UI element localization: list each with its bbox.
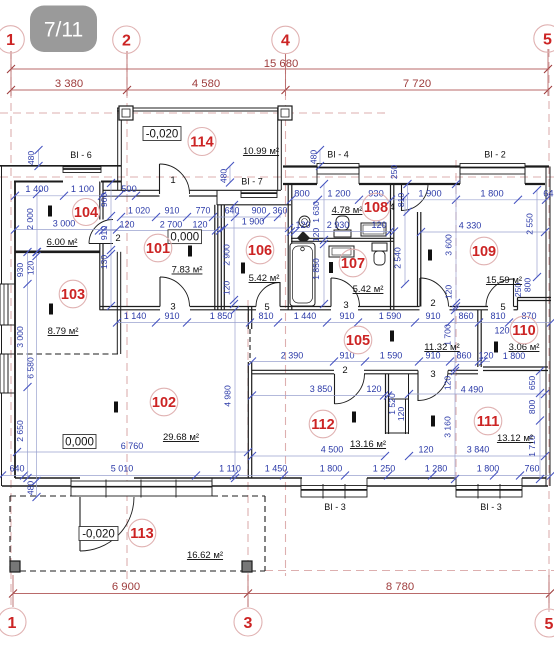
- svg-text:3 000: 3 000: [15, 326, 25, 348]
- wall 109 left vertical below door: [417, 212, 419, 307]
- wall B porch/entry (y=190): [103, 189, 160, 191]
- svg-text:4 980: 4 980: [223, 385, 233, 407]
- blue dim 1900 room 106 top: [224, 227, 289, 229]
- svg-text:250: 250: [389, 165, 399, 180]
- door 2 109 leaf: [419, 278, 421, 307]
- porch 113 column left: [10, 561, 20, 572]
- svg-text:5: 5: [543, 31, 552, 48]
- svg-text:3 850: 3 850: [310, 384, 333, 394]
- inner ledge line y=204.8: [217, 204, 291, 206]
- red dashed axis grid line 4 (vertical x=289): [285, 53, 287, 576]
- svg-text:120: 120: [418, 445, 433, 455]
- red dashed axis line (vertical x=456): [455, 160, 457, 490]
- door 2 101->104 arc: [89, 220, 113, 244]
- svg-text:7 720: 7 720: [403, 78, 431, 90]
- section mark room 110: [494, 342, 498, 353]
- svg-text:1 020: 1 020: [128, 206, 150, 216]
- svg-text:ВІ - 3: ВІ - 3: [480, 502, 502, 512]
- svg-text:2 000: 2 000: [25, 208, 35, 230]
- svg-text:113: 113: [130, 526, 153, 542]
- svg-text:1: 1: [8, 615, 17, 632]
- section mark room 107: [329, 262, 333, 273]
- svg-text:106: 106: [248, 243, 272, 259]
- porch 114 column left: [119, 106, 133, 120]
- svg-text:2 550: 2 550: [525, 213, 535, 235]
- porch 113 dashed outline: [10, 495, 80, 497]
- svg-text:5 010: 5 010: [111, 464, 134, 474]
- svg-text:ВІ - 6: ВІ - 6: [70, 150, 92, 160]
- red grid extension stems top: [10, 51, 12, 96]
- red dashed axis grid line 2 (vertical x=127): [126, 51, 128, 580]
- svg-text:3: 3: [244, 615, 253, 632]
- svg-text:1 440: 1 440: [294, 311, 317, 321]
- wall 102/105/112 vertical x=250: [247, 307, 249, 330]
- door 2 101->104 leaf: [89, 243, 113, 245]
- svg-text:1: 1: [170, 175, 175, 186]
- svg-text:120: 120: [396, 407, 406, 422]
- svg-text:2: 2: [122, 32, 131, 49]
- svg-text:1 250: 1 250: [373, 464, 396, 474]
- stub wall x=217 y190-205: [216, 190, 218, 205]
- window jambs top wall: [316, 167, 318, 185]
- living room window band (bottom): [71, 481, 212, 496]
- svg-text:4 330: 4 330: [459, 221, 482, 231]
- svg-text:-0,020: -0,020: [146, 128, 179, 140]
- svg-text:910: 910: [339, 311, 354, 321]
- svg-text:800: 800: [294, 189, 310, 199]
- blue vdim 2540: [404, 197, 406, 284]
- porch 114 column right: [278, 106, 292, 120]
- svg-text:4 500: 4 500: [321, 445, 344, 455]
- svg-text:120: 120: [444, 285, 454, 300]
- section mark room 101: [188, 246, 192, 257]
- wall 110/111 divider: [483, 366, 548, 368]
- room tag 112: [309, 410, 337, 438]
- red dimension line row 3380/4580/7720: [11, 89, 548, 91]
- wall corridor-arm/110 vertical: [477, 310, 479, 367]
- svg-text:2 930: 2 930: [327, 220, 350, 230]
- svg-text:1 900: 1 900: [418, 189, 441, 199]
- wall 106/107 (bathroom block left) vertical: [287, 184, 289, 310]
- svg-text:1 630: 1 630: [311, 201, 321, 223]
- blue vdim 480 BI-4: [319, 150, 321, 166]
- svg-text:360: 360: [273, 206, 288, 216]
- svg-text:110: 110: [512, 323, 535, 339]
- red overall dimension line 15680: [11, 68, 548, 70]
- blue dim row 800/1200/930/1900/1800: [291, 199, 548, 201]
- toilet room 107: [372, 243, 387, 251]
- svg-text:103: 103: [61, 287, 85, 303]
- room tag 114: [188, 128, 216, 156]
- svg-text:1 850: 1 850: [311, 258, 321, 280]
- blue vdim 2900/120 room 106: [233, 205, 235, 307]
- svg-text:5.42 м²: 5.42 м²: [353, 284, 384, 295]
- window BI-3 right (below room 111): [456, 486, 522, 498]
- room tag 108: [362, 193, 390, 221]
- svg-text:111: 111: [477, 414, 500, 430]
- red dashed axis grid line 5 (vertical x=549): [548, 49, 550, 612]
- left wall window lower: [0, 354, 8, 393]
- door 1 arc: [160, 164, 190, 194]
- svg-text:101: 101: [146, 241, 170, 257]
- door 4 108->109 leaf: [401, 184, 403, 211]
- blue dim row 120/2930/120 (bathrooms): [291, 231, 394, 233]
- outer top wall left section, outer face: [0, 165, 121, 167]
- svg-text:5: 5: [264, 302, 269, 313]
- blue bottom dim row y=475: [2, 475, 551, 477]
- door 3 107 leaf: [330, 278, 332, 307]
- porch 114 right wall: [277, 108, 279, 190]
- red dashed horizontal axis y=115: [0, 112, 390, 114]
- door 3 105->111 arc: [418, 371, 448, 401]
- blue dim row 120/2700/120 (room 101): [99, 230, 220, 232]
- svg-text:5.42 м²: 5.42 м²: [249, 273, 280, 284]
- room tag 110: [510, 316, 538, 344]
- grid bubble 1 top: [0, 26, 24, 53]
- red dashed horizontal axis y=570: [265, 570, 554, 572]
- svg-text:130: 130: [99, 255, 109, 270]
- washbasin room 107: [329, 246, 354, 257]
- blue vdim 2550 room 109: [536, 190, 538, 277]
- svg-text:ВІ - 4: ВІ - 4: [327, 150, 349, 160]
- 109 bottom wall right raised step: [518, 297, 552, 299]
- room tag 101: [144, 234, 172, 262]
- svg-text:6 580: 6 580: [26, 357, 36, 379]
- svg-text:6 900: 6 900: [112, 581, 140, 593]
- grid bubble 2 top: [113, 26, 140, 53]
- svg-text:1 140: 1 140: [124, 311, 147, 321]
- svg-text:ВІ - 2: ВІ - 2: [484, 150, 506, 160]
- blue vdim 810 door 109: [407, 184, 409, 212]
- outer top wall right section, outer face: [283, 165, 549, 167]
- grid bubble 1 bottom: [0, 608, 26, 636]
- washbasin room 108: [299, 216, 310, 227]
- svg-text:8.79 м²: 8.79 м²: [48, 326, 79, 337]
- open boundary 103/102 dashed: [17, 353, 119, 355]
- svg-text:770: 770: [196, 206, 211, 216]
- svg-text:930: 930: [15, 263, 25, 278]
- svg-text:3: 3: [430, 369, 435, 380]
- wall 104/103 divider: [15, 251, 100, 254]
- svg-text:107: 107: [341, 256, 365, 272]
- svg-text:1 800: 1 800: [477, 464, 500, 474]
- svg-text:120: 120: [371, 220, 386, 230]
- room tag 106: [246, 236, 274, 264]
- svg-text:1 850: 1 850: [210, 311, 233, 321]
- bottom outer wall inner face: [15, 477, 80, 479]
- svg-text:2 650: 2 650: [15, 420, 25, 442]
- svg-text:8 780: 8 780: [386, 581, 414, 593]
- svg-text:860: 860: [458, 311, 473, 321]
- blue vdim 960/910/130 x=110: [110, 183, 112, 307]
- svg-text:15 680: 15 680: [264, 58, 299, 70]
- wall 104/101 vertical: [99, 182, 101, 220]
- outer top wall left section, inner face: [14, 181, 63, 183]
- svg-text:910: 910: [165, 206, 180, 216]
- svg-text:4: 4: [281, 33, 290, 50]
- svg-text:15.59 м²: 15.59 м²: [486, 275, 522, 286]
- room tag 111: [474, 407, 502, 435]
- blue dim row 1020/910/770/640/900/360: [121, 216, 281, 218]
- svg-text:6.00 м²: 6.00 м²: [47, 237, 78, 248]
- svg-text:650: 650: [527, 376, 537, 391]
- section mark room 109: [428, 250, 432, 261]
- red bottom dimension line 6900 / 8780: [13, 593, 550, 595]
- svg-text:120: 120: [478, 351, 493, 361]
- svg-text:3 840: 3 840: [467, 445, 490, 455]
- svg-text:1: 1: [6, 32, 15, 49]
- cabinet room 108: [361, 223, 386, 236]
- svg-text:4 580: 4 580: [192, 78, 220, 90]
- blue dim middle row y=322: [117, 322, 551, 324]
- window BI-7: [241, 191, 277, 198]
- left outer wall inner face: [14, 182, 16, 479]
- door 3 101->102 arc: [160, 277, 190, 307]
- elevation box 0,000 room 101: [168, 230, 202, 244]
- blue vdim 2000 room 104: [36, 194, 38, 252]
- wall 103 right vertical: [116, 252, 118, 354]
- svg-text:0,000: 0,000: [65, 436, 94, 448]
- svg-text:640: 640: [9, 464, 24, 474]
- svg-text:2: 2: [342, 365, 347, 376]
- svg-text:800: 800: [523, 278, 533, 293]
- svg-text:114: 114: [190, 135, 213, 151]
- grid bubble 3 bottom: [234, 608, 262, 636]
- svg-text:105: 105: [346, 333, 370, 349]
- room bottom wall band y=306.5/309.8: [100, 306, 161, 308]
- svg-text:112: 112: [311, 417, 334, 433]
- svg-text:120: 120: [366, 384, 381, 394]
- svg-text:7.83 м²: 7.83 м²: [172, 265, 203, 276]
- door 3 101->102 leaf: [159, 277, 161, 307]
- elevation box -0,020 porch 113: [79, 527, 118, 541]
- svg-text:900: 900: [252, 206, 267, 216]
- blue vdim 1700/120/3160 corridor arm: [454, 310, 456, 479]
- door 1 porch->101 leaf: [159, 164, 161, 194]
- door 3 105->111 leaf: [417, 371, 419, 402]
- shaft walls between 112 and 111: [385, 374, 387, 434]
- window BI-6 in top-left wall: [63, 167, 101, 173]
- toilet room 108: [336, 216, 349, 230]
- svg-text:1 590: 1 590: [379, 311, 402, 321]
- svg-text:480: 480: [219, 169, 229, 184]
- room tag 107: [339, 249, 367, 277]
- door 4 arc: [402, 184, 429, 211]
- svg-text:109: 109: [472, 244, 496, 260]
- porch 114 left wall: [117, 108, 119, 190]
- svg-text:2 390: 2 390: [281, 351, 304, 361]
- svg-text:2 900: 2 900: [222, 244, 232, 266]
- grid bubble 5 bottom: [535, 609, 554, 637]
- wall 108/109 vertical: [390, 184, 392, 310]
- svg-text:1 200: 1 200: [327, 189, 350, 199]
- door 102->113 leaf: [79, 497, 81, 551]
- svg-text:108: 108: [364, 200, 388, 216]
- svg-text:1 100: 1 100: [71, 184, 94, 194]
- blue dim 4330 room 109: [421, 231, 545, 233]
- grid bubble 5 top: [534, 25, 554, 52]
- door 102->113 arc: [80, 497, 134, 551]
- svg-text:4 490: 4 490: [461, 385, 484, 395]
- svg-text:1 900: 1 900: [242, 217, 265, 227]
- svg-text:1 110: 1 110: [219, 464, 241, 474]
- svg-text:760: 760: [524, 464, 539, 474]
- svg-text:1 800: 1 800: [480, 189, 503, 199]
- door 5 106 leaf: [279, 282, 281, 307]
- page badge 7/11: [30, 6, 97, 53]
- blue vdim 4980 room 102: [234, 310, 236, 478]
- svg-text:120: 120: [311, 228, 321, 243]
- door 5 106 arc: [256, 283, 280, 307]
- left wall window stubs: [2, 283, 16, 285]
- svg-text:480: 480: [26, 481, 36, 496]
- door 2 105->112 arc: [335, 374, 365, 404]
- svg-text:16.62 м²: 16.62 м²: [187, 550, 223, 561]
- window jambs bottom wall: [70, 478, 72, 486]
- room tag 113: [128, 519, 156, 547]
- wall 106 left vertical: [220, 205, 222, 310]
- svg-text:104: 104: [74, 205, 98, 221]
- svg-text:4.78 м²: 4.78 м²: [332, 205, 363, 216]
- room tag 109: [470, 237, 498, 265]
- blue dim row under top-left wall: [15, 195, 136, 197]
- outer top wall right section, inner face: [283, 183, 317, 185]
- grid bubble 4 top: [272, 26, 299, 53]
- door 2 109 arc: [420, 278, 449, 307]
- red dashed horizontal axis y=177: [0, 176, 554, 178]
- porch 114 outline top wall: [117, 107, 281, 109]
- blue dim 3000 room 104: [15, 229, 117, 231]
- svg-text:3 380: 3 380: [55, 78, 83, 90]
- svg-text:640: 640: [543, 189, 554, 199]
- svg-text:0,000: 0,000: [170, 231, 199, 243]
- room tag 103: [59, 280, 87, 308]
- svg-text:ВІ - 3: ВІ - 3: [324, 502, 346, 512]
- elevation box -0,020 porch 114: [143, 127, 181, 141]
- svg-text:13.16 м²: 13.16 м²: [350, 439, 386, 450]
- bathtub room 107: [290, 243, 315, 306]
- section mark room 106: [241, 263, 245, 274]
- corridor 105 bottom wall: [252, 369, 334, 371]
- svg-text:120: 120: [119, 220, 134, 230]
- svg-text:800: 800: [527, 400, 537, 415]
- svg-text:2: 2: [430, 298, 435, 309]
- blue dim corridor row y=361: [252, 361, 490, 363]
- blue vdim chain left 930/3000/2650: [27, 252, 29, 478]
- svg-text:910: 910: [164, 311, 179, 321]
- svg-text:3 160: 3 160: [443, 416, 453, 438]
- left wall window upper: [0, 284, 8, 325]
- svg-text:810: 810: [396, 193, 406, 208]
- svg-text:7/11: 7/11: [44, 19, 83, 42]
- door 5 109 leaf: [513, 279, 515, 307]
- red grid extension stems bottom: [12, 575, 14, 607]
- blue dim 6760 room 102: [17, 451, 248, 453]
- svg-text:1 400: 1 400: [25, 184, 48, 194]
- svg-text:6 760: 6 760: [121, 441, 144, 451]
- elevation box 0,000 room 102: [63, 435, 96, 449]
- svg-text:13.12 м²: 13.12 м²: [497, 433, 533, 444]
- svg-text:-0,020: -0,020: [82, 528, 115, 540]
- red dashed axis grid line 3 (vertical x=248, lower): [247, 300, 249, 609]
- door 5 109 arc: [486, 279, 514, 307]
- svg-text:2: 2: [115, 233, 120, 244]
- section mark room 105: [390, 331, 394, 342]
- svg-text:5: 5: [545, 616, 554, 633]
- svg-text:3: 3: [343, 300, 348, 311]
- section mark room 103: [49, 304, 53, 315]
- left outer wall outer face: [1, 166, 3, 486]
- window BI-2 in top wall: [460, 164, 525, 175]
- blue vdim 650/800/1710 right wall: [539, 371, 541, 479]
- section mark room 112: [352, 412, 356, 423]
- wall 101 right vertical: [214, 205, 216, 310]
- door 3 107 arc: [331, 278, 360, 307]
- svg-text:3 600: 3 600: [444, 234, 454, 256]
- blue dim rows room 112/111 top: [252, 395, 388, 397]
- svg-text:3 000: 3 000: [53, 219, 76, 229]
- svg-text:480: 480: [26, 151, 36, 166]
- svg-text:5: 5: [500, 302, 505, 313]
- blue vdim 3600/120 room 109: [455, 184, 457, 307]
- svg-text:1 450: 1 450: [265, 464, 288, 474]
- svg-text:480: 480: [309, 150, 319, 165]
- svg-text:120: 120: [295, 220, 310, 230]
- blue vdim 480 top-left: [38, 150, 40, 167]
- wall 107/108 divider horizontal: [291, 237, 394, 239]
- svg-text:910: 910: [99, 226, 109, 241]
- svg-text:120: 120: [443, 376, 453, 391]
- svg-text:10.99 м²: 10.99 м²: [243, 146, 279, 157]
- room tag 102: [150, 388, 178, 416]
- blue vdim 1630/120/1850 bathrooms: [323, 184, 325, 307]
- svg-text:120: 120: [192, 220, 207, 230]
- svg-text:102: 102: [152, 395, 176, 411]
- door 2 105->112 leaf: [334, 374, 336, 404]
- section mark room 102: [114, 402, 118, 413]
- svg-text:120: 120: [26, 261, 36, 276]
- svg-text:500: 500: [121, 184, 137, 194]
- blue vdim chain left 120/6580/480: [36, 252, 38, 497]
- svg-text:1 800: 1 800: [503, 351, 526, 361]
- svg-text:1 280: 1 280: [425, 464, 448, 474]
- svg-text:910: 910: [425, 311, 440, 321]
- svg-text:29.68 м²: 29.68 м²: [163, 432, 199, 443]
- svg-text:2 540: 2 540: [393, 247, 403, 269]
- dark fixture room 108: [297, 231, 310, 241]
- svg-text:ВІ - 7: ВІ - 7: [241, 177, 263, 187]
- bottom outer wall outer face: [2, 485, 71, 487]
- blue dim rows room 112/111 bottom: [252, 455, 385, 457]
- svg-text:960: 960: [99, 193, 109, 208]
- svg-text:2 700: 2 700: [160, 220, 183, 230]
- window BI-4 in top wall: [317, 164, 359, 175]
- porch 113 column right: [242, 561, 252, 572]
- svg-text:1 590: 1 590: [380, 351, 403, 361]
- svg-text:1 800: 1 800: [320, 464, 343, 474]
- section mark room 104: [48, 206, 52, 217]
- window BI-3 left (below room 112): [301, 486, 367, 498]
- blue vdim 480 porch: [229, 166, 231, 183]
- svg-text:3: 3: [170, 302, 175, 313]
- section mark room 111: [431, 416, 435, 427]
- room tag 105: [344, 326, 372, 354]
- room tag 104: [73, 199, 100, 226]
- svg-text:120: 120: [222, 281, 232, 296]
- svg-text:11.32 м²: 11.32 м²: [424, 342, 459, 353]
- red dashed axis grid line 1 (vertical x=11): [10, 51, 12, 610]
- svg-text:120: 120: [494, 326, 509, 336]
